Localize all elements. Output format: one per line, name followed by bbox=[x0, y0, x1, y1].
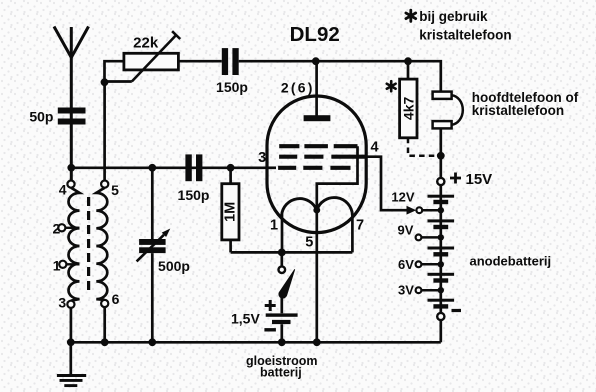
svg-text:6V: 6V bbox=[398, 257, 414, 272]
svg-text:4k7: 4k7 bbox=[400, 97, 416, 121]
svg-text:6: 6 bbox=[112, 291, 120, 307]
svg-text:bij gebruik: bij gebruik bbox=[419, 9, 488, 24]
svg-text:5: 5 bbox=[111, 182, 119, 198]
svg-text:150p: 150p bbox=[178, 187, 210, 203]
svg-text:1M: 1M bbox=[223, 202, 239, 222]
svg-text:3: 3 bbox=[58, 295, 66, 311]
svg-text:batterij: batterij bbox=[260, 366, 302, 380]
svg-text:4: 4 bbox=[59, 182, 67, 198]
svg-text:5: 5 bbox=[305, 234, 313, 250]
svg-text:7: 7 bbox=[356, 217, 364, 233]
svg-text:2(6): 2(6) bbox=[281, 80, 315, 96]
svg-text:2: 2 bbox=[53, 221, 61, 237]
svg-text:12V: 12V bbox=[391, 189, 414, 204]
svg-text:15V: 15V bbox=[466, 171, 493, 188]
svg-text:anodebatterij: anodebatterij bbox=[470, 254, 552, 269]
svg-text:22k: 22k bbox=[133, 34, 159, 51]
svg-text:1: 1 bbox=[270, 217, 278, 233]
svg-text:3V: 3V bbox=[398, 282, 414, 297]
svg-text:3: 3 bbox=[258, 150, 266, 166]
svg-text:150p: 150p bbox=[216, 79, 248, 95]
svg-text:kristaltelefoon: kristaltelefoon bbox=[419, 28, 511, 43]
svg-text:50p: 50p bbox=[29, 108, 53, 124]
svg-text:1,5V: 1,5V bbox=[231, 311, 260, 327]
svg-text:kristaltelefoon: kristaltelefoon bbox=[472, 103, 564, 118]
svg-text:1: 1 bbox=[53, 258, 61, 274]
svg-text:500p: 500p bbox=[158, 258, 190, 274]
svg-text:9V: 9V bbox=[398, 222, 414, 237]
svg-text:4: 4 bbox=[370, 139, 378, 155]
svg-text:DL92: DL92 bbox=[290, 23, 340, 46]
